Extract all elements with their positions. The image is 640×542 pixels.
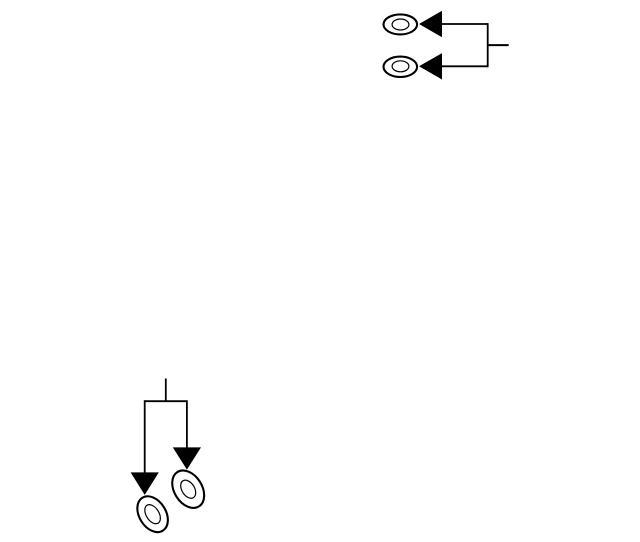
wire: horizontal branch bar of node N2 bbox=[145, 400, 187, 402]
connector J4 (bottom-left rotated double-ellipse terminal) bbox=[166, 465, 211, 514]
connector J1 (top-right group, upper double-ellipse terminal) bbox=[384, 14, 418, 34]
wire from node N1 to J2 arrowhead bbox=[442, 65, 488, 67]
wire: stub from node N1 to the right bbox=[488, 44, 509, 46]
arrowhead into J3 bbox=[131, 472, 159, 495]
wire: top stub of bottom-left group (net A) bbox=[165, 379, 167, 402]
connector J2 (top-right group, lower double-ellipse terminal) bbox=[384, 57, 418, 77]
wire: right drop from node N2 to J4 arrowhead bbox=[186, 400, 188, 448]
wire: vertical bus at node N1 joining J1 and J2 branches bbox=[487, 23, 489, 67]
wire: left drop from node N2 to J3 arrowhead bbox=[144, 400, 146, 473]
connector J3 (bottom-left rotated double-ellipse terminal) bbox=[131, 491, 174, 538]
arrowhead into J2 bbox=[419, 53, 442, 79]
wire from node N1 to J1 arrowhead bbox=[442, 23, 488, 25]
arrowhead into J4 bbox=[173, 447, 201, 469]
arrowhead into J1 bbox=[419, 11, 442, 37]
